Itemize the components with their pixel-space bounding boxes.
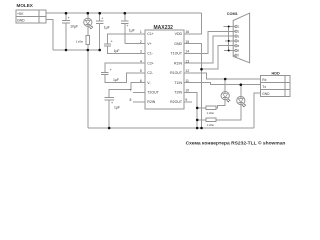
svg-text:1µF: 1µF (113, 78, 119, 82)
wire GND from molex (46, 20, 53, 50)
svg-text:COM1: COM1 (227, 12, 238, 16)
svg-text:+5V: +5V (17, 12, 24, 16)
LED D2 on Rx line (216, 79, 231, 108)
svg-text:1 кОм: 1 кОм (207, 111, 214, 115)
X1 pin 3 (233, 35, 240, 38)
svg-text:2: 2 (140, 40, 142, 44)
U1 right pin numbers (185, 30, 189, 102)
wire +5V bus top (46, 12, 202, 14)
svg-text:16: 16 (185, 30, 189, 34)
wire GND branch to COM1 pin5 (202, 46, 234, 69)
X1 pin 2 (233, 30, 240, 33)
svg-text:3: 3 (140, 50, 142, 54)
svg-text:C2-: C2- (147, 71, 153, 75)
capacitor C2 1uF decoupling (96, 13, 110, 50)
wire loopback COM1 pins 1-4-6 (228, 27, 230, 51)
wire T1OUT pin14 to COM1 pin2 (192, 31, 233, 53)
svg-text:C1+: C1+ (147, 32, 154, 36)
resistor R1 1kOm (76, 36, 90, 51)
svg-text:1: 1 (140, 30, 142, 34)
connector X2 HDD (261, 72, 291, 97)
svg-text:8: 8 (130, 98, 132, 102)
connector X1 COM1 body (227, 12, 250, 63)
wire R1IN pin13 to COM1 pin3 (192, 36, 233, 63)
svg-text:Tx: Tx (262, 85, 266, 89)
svg-text:GND: GND (174, 42, 182, 46)
U1 left pin numbers (130, 30, 142, 102)
node LED D3 tap (240, 83, 243, 86)
svg-text:GND: GND (17, 19, 25, 23)
svg-text:6: 6 (140, 79, 142, 83)
svg-text:+: + (68, 16, 70, 20)
svg-text:1 кОм: 1 кОм (207, 123, 214, 127)
capacitor C5 1uF C2+ to C2- (101, 63, 138, 82)
svg-text:R1OUT: R1OUT (170, 71, 183, 75)
resistor R3 1kOm (197, 118, 216, 127)
svg-text:C1-: C1- (147, 52, 153, 56)
svg-text:Схема конвертера RS232-TLL © s: Схема конвертера RS232-TLL © showman (186, 139, 286, 146)
X1 pin 6 (235, 49, 240, 52)
svg-text:Rx: Rx (262, 78, 266, 82)
X1 pin 4 (235, 40, 240, 43)
svg-text:1µF: 1µF (104, 26, 110, 30)
svg-text:V+: V+ (147, 42, 151, 46)
wire HDD GND to bus (254, 93, 261, 128)
node junctions mid bus (65, 49, 101, 52)
svg-text:+: + (111, 101, 113, 105)
U1 right pin stubs 16-9 (184, 34, 192, 102)
node loopback pin4 (228, 26, 230, 28)
svg-text:+: + (126, 24, 128, 28)
U1 right pin names (170, 32, 183, 104)
X1 pin 5 (233, 45, 240, 48)
svg-text:C2+: C2+ (147, 61, 154, 65)
svg-text:1µF: 1µF (114, 106, 120, 110)
capacitor C3 1uF V+ to VCC (121, 13, 138, 44)
wire T1IN pin11 to HDD Tx (192, 83, 261, 85)
node GND branch (200, 68, 203, 71)
svg-text:7: 7 (130, 89, 132, 93)
svg-text:GND: GND (262, 92, 270, 96)
svg-text:10: 10 (185, 89, 189, 93)
node junctions top bus (65, 12, 126, 15)
wire T2IN pin10 to GND bus (192, 92, 197, 128)
U1 left pin stubs 1-8 (133, 34, 145, 102)
node resistor taps (196, 107, 199, 110)
wire GND chain down from mid bus (87, 50, 89, 128)
svg-text:+: + (111, 40, 113, 44)
wire GND mid bus (53, 49, 100, 51)
X1 pin 1 (235, 25, 240, 28)
capacitor C1 10uF (62, 13, 78, 50)
node LED D2 tap (224, 78, 227, 81)
svg-text:1 кОм: 1 кОм (76, 39, 83, 43)
svg-text:1µF: 1µF (129, 29, 135, 33)
resistor R2 1kOm (197, 106, 216, 115)
LED D1 power (84, 13, 93, 35)
svg-text:9: 9 (185, 98, 187, 102)
svg-text:T1OUT: T1OUT (171, 52, 183, 56)
U1 left pin names (147, 32, 159, 104)
svg-text:11: 11 (185, 79, 189, 83)
svg-text:15: 15 (185, 40, 189, 44)
svg-text:10µF: 10µF (70, 24, 78, 28)
X1 pin 7 (233, 54, 240, 57)
svg-text:T2OUT: T2OUT (147, 91, 159, 95)
wire +5V drop to VDD pin16 (192, 13, 202, 34)
LED D3 on Tx line (216, 85, 246, 120)
svg-text:R1IN: R1IN (174, 61, 182, 65)
svg-text:R2OUT: R2OUT (170, 100, 183, 104)
svg-text:14: 14 (185, 50, 189, 54)
svg-text:MOLEX: MOLEX (17, 3, 34, 8)
connector J1 MOLEX (16, 3, 46, 23)
capacitor C6 1uF on V- (104, 83, 137, 128)
wire GND bottom bus (88, 127, 254, 129)
op-amp U1 MAX232 IC body (145, 25, 184, 109)
svg-text:5: 5 (140, 69, 142, 73)
svg-text:T2IN: T2IN (174, 91, 182, 95)
svg-text:12: 12 (185, 69, 189, 73)
capacitor C4 1uF C1+ to C1- (104, 34, 138, 53)
svg-text:R2IN: R2IN (147, 100, 155, 104)
wire GND net pin15 down (192, 44, 202, 128)
svg-text:T1IN: T1IN (174, 81, 182, 85)
svg-text:13: 13 (185, 59, 189, 63)
wire R1OUT pin12 to HDD Rx (192, 73, 261, 79)
svg-text:+: + (101, 16, 103, 20)
svg-text:4: 4 (140, 59, 142, 63)
svg-text:VDD: VDD (175, 32, 183, 36)
svg-text:+: + (110, 68, 112, 72)
svg-text:1µF: 1µF (114, 49, 120, 53)
node junctions bottom bus (108, 127, 203, 130)
